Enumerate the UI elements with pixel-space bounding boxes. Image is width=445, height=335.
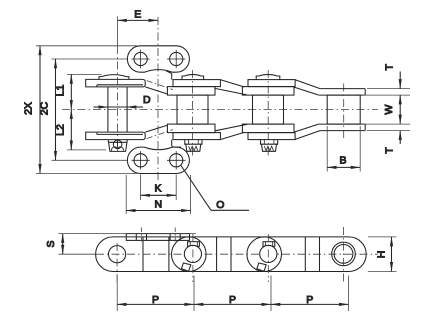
- dimension T upper: [362, 64, 410, 96]
- svg-text:2X: 2X: [23, 102, 35, 115]
- side view chain centerline: [96, 253, 378, 255]
- dimension D: [94, 94, 152, 107]
- dimension W: [383, 95, 400, 124]
- svg-text:S: S: [45, 240, 57, 247]
- svg-text:T: T: [384, 64, 396, 71]
- pin P3 upper plates: [242, 80, 295, 96]
- pin P2 head: [182, 74, 204, 79]
- side view attachment strip: [126, 234, 189, 241]
- right end inner plates: [318, 89, 365, 131]
- svg-text:2C: 2C: [39, 101, 51, 115]
- upper attachment plate: [127, 46, 189, 72]
- side view plate divisions: [143, 237, 320, 272]
- side roller pin1: [109, 243, 126, 282]
- pin P3 castle nut: [261, 140, 278, 152]
- side roller pin3: [247, 237, 282, 272]
- pin3 cotter: [257, 263, 266, 271]
- link C taper diagonals lower: [294, 124, 320, 139]
- link B taper diagonals upper: [215, 80, 247, 95]
- leader O: [181, 166, 249, 212]
- link A taper diagonals lower: [145, 125, 173, 138]
- upper attachment hole left: [132, 50, 150, 68]
- dimension 2C: [39, 59, 128, 160]
- side roller pin4: [332, 227, 356, 282]
- pin2 nut circle: [184, 234, 201, 282]
- chain horizontal centerline (top view): [62, 109, 378, 111]
- dimension P extension lines: [117, 276, 348, 312]
- pin P1 shaft: [108, 87, 127, 132]
- pin P1 riveted end: [108, 140, 127, 152]
- dimension S: [45, 234, 196, 255]
- svg-text:W: W: [383, 105, 395, 115]
- pin P3 centerline: [267, 70, 269, 156]
- svg-text:O: O: [216, 199, 224, 211]
- svg-text:P: P: [152, 294, 159, 306]
- pin P3 bushing: [253, 95, 284, 124]
- pin P2 lower plates: [167, 124, 220, 147]
- svg-text:L2: L2: [55, 124, 67, 136]
- roller R4: [327, 95, 360, 124]
- dimension H: [368, 237, 397, 272]
- svg-text:H: H: [376, 251, 388, 259]
- svg-text:P: P: [306, 294, 313, 306]
- side view bar outline: [96, 237, 367, 272]
- pin P3 lower plates: [242, 124, 295, 140]
- dimension T lower: [362, 124, 410, 154]
- dimension 2X: [23, 46, 138, 174]
- pin P2 bushing: [177, 95, 208, 124]
- pin P2 upper plates: [166, 71, 220, 95]
- pin P2 castle nut: [185, 140, 202, 152]
- pin2 nut block: [188, 242, 200, 247]
- lower attachment hole left: [132, 151, 150, 169]
- side roller pin2: [172, 237, 207, 272]
- dimension K: [141, 175, 177, 201]
- attachment plate centerline: [157, 17, 159, 181]
- dimension L1: [55, 74, 102, 109]
- pin P4 centerline: [343, 84, 345, 142]
- upper attachment hole right: [167, 50, 185, 68]
- pin2 cotter: [181, 263, 190, 271]
- svg-text:P: P: [229, 294, 236, 306]
- dimension B: [327, 126, 360, 172]
- link B taper diagonals lower: [215, 124, 247, 139]
- link C taper diagonals upper: [294, 80, 320, 95]
- svg-text:L1: L1: [55, 85, 67, 97]
- pin3 nut circle: [260, 234, 277, 282]
- pin P2 centerline: [192, 70, 194, 156]
- pin P3 head: [256, 74, 280, 79]
- svg-text:T: T: [384, 147, 396, 154]
- svg-text:B: B: [339, 155, 346, 167]
- pin3 nut block: [263, 242, 275, 247]
- pin P1 head: [99, 75, 129, 80]
- svg-text:E: E: [134, 9, 141, 21]
- lower attachment plate: [127, 147, 189, 173]
- dimension P span 2: [194, 294, 271, 306]
- dimension P span 1: [117, 294, 194, 306]
- svg-text:K: K: [154, 183, 161, 195]
- pin P1 lower plate: [86, 132, 146, 140]
- dimension P span 3: [271, 294, 349, 306]
- dimension E: [118, 19, 159, 21]
- svg-text:N: N: [155, 198, 163, 210]
- attachment hole centerline ticks: [141, 228, 175, 242]
- dimension L2: [55, 110, 107, 150]
- svg-text:D: D: [143, 94, 151, 106]
- pin P1 centerline: [117, 17, 119, 154]
- lower attachment hole right: [167, 151, 185, 169]
- link A taper diagonals upper: [145, 81, 173, 94]
- pin P1 upper plate: [86, 79, 146, 87]
- dimension N: [126, 175, 190, 214]
